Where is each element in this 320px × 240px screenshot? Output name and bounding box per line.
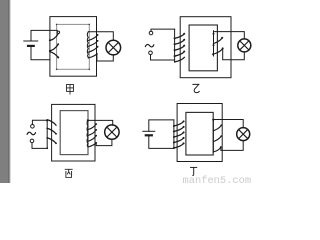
svg-text:manfen5.com: manfen5.com — [183, 175, 252, 183]
